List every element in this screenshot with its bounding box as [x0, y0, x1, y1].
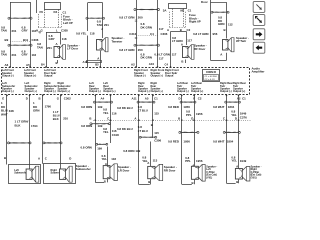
svg-text:BLK: BLK — [15, 123, 22, 127]
svg-text:YEL: YEL — [103, 130, 109, 134]
svg-text:C306: C306 — [161, 32, 168, 36]
svg-text:210: 210 — [63, 117, 68, 121]
svg-text:B: B — [178, 116, 180, 120]
svg-text:0.8 ORN: 0.8 ORN — [81, 124, 92, 128]
svg-text:1956: 1956 — [196, 159, 203, 163]
svg-text:0.8 ORN: 0.8 ORN — [123, 149, 134, 153]
svg-text:DK GRN: DK GRN — [141, 56, 152, 60]
svg-text:Output (-): Output (-) — [2, 89, 14, 93]
svg-text:C1: C1 — [188, 9, 192, 13]
svg-text:Output (-): Output (-) — [138, 89, 150, 93]
svg-text:117: 117 — [187, 38, 192, 42]
svg-text:C312: C312 — [129, 32, 136, 36]
svg-text:118: 118 — [62, 37, 67, 41]
svg-text:GRN: GRN — [33, 109, 39, 113]
svg-text:1804: 1804 — [228, 105, 235, 109]
svg-text:Subwoofer: Subwoofer — [76, 167, 92, 171]
svg-text:Output (-): Output (-) — [134, 74, 146, 78]
svg-text:201: 201 — [12, 53, 17, 57]
svg-text:118: 118 — [90, 32, 95, 36]
svg-text:YEL: YEL — [102, 157, 108, 161]
svg-text:Door: Door — [201, 0, 209, 4]
svg-text:(Y91): (Y91) — [206, 176, 212, 179]
svg-text:Output (-): Output (-) — [220, 89, 232, 93]
svg-text:0.8 WHT: 0.8 WHT — [213, 140, 225, 144]
svg-text:0.8 YEL: 0.8 YEL — [76, 32, 87, 36]
svg-text:A12: A12 — [83, 60, 88, 64]
svg-text:D: D — [191, 116, 193, 120]
svg-text:B: B — [148, 180, 150, 184]
svg-text:D: D — [235, 116, 237, 120]
svg-text:116: 116 — [112, 111, 117, 115]
svg-text:199: 199 — [98, 105, 103, 109]
svg-text:B: B — [192, 181, 194, 185]
svg-text:117: 117 — [159, 57, 164, 61]
svg-text:C2: C2 — [198, 96, 202, 100]
svg-text:(Y91): (Y91) — [251, 176, 257, 179]
svg-text:0.8 LT GRN: 0.8 LT GRN — [119, 16, 134, 20]
svg-text:LR Door: LR Door — [118, 168, 130, 172]
svg-text:D: D — [26, 96, 28, 100]
svg-text:A2: A2 — [131, 62, 135, 66]
svg-text:0.8 ORN: 0.8 ORN — [81, 105, 92, 109]
svg-text:199: 199 — [98, 124, 103, 128]
svg-text:117: 117 — [159, 27, 164, 31]
svg-text:1790: 1790 — [45, 104, 52, 108]
svg-text:C376: C376 — [240, 115, 247, 119]
svg-text:BLK: BLK — [53, 117, 60, 121]
svg-text:C1: C1 — [242, 96, 246, 100]
svg-text:B: B — [104, 179, 106, 183]
svg-text:115: 115 — [154, 131, 159, 135]
svg-text:113: 113 — [153, 158, 158, 162]
svg-text:C305: C305 — [61, 29, 68, 33]
svg-text:WHT: WHT — [1, 112, 8, 116]
svg-text:115: 115 — [154, 111, 159, 115]
svg-text:201: 201 — [104, 23, 109, 27]
svg-text:1956: 1956 — [183, 140, 190, 144]
svg-text:B: B — [4, 156, 6, 160]
svg-text:C4: C4 — [165, 63, 169, 67]
svg-text:0.8 ORN: 0.8 ORN — [81, 146, 92, 150]
svg-text:F6: F6 — [40, 10, 44, 14]
svg-text:B: B — [224, 28, 226, 32]
svg-text:0.8 LT GRN: 0.8 LT GRN — [154, 53, 169, 57]
svg-text:A4: A4 — [101, 96, 105, 100]
svg-text:LT BLU: LT BLU — [138, 129, 148, 133]
svg-text:0.8 RED: 0.8 RED — [168, 105, 179, 109]
svg-text:C1 = 40 WH: C1 = 40 WH — [205, 76, 217, 78]
svg-text:0.8 DK BLU: 0.8 DK BLU — [117, 106, 133, 110]
svg-text:GRN: GRN — [218, 22, 224, 26]
svg-text:Output: Output — [44, 74, 52, 78]
svg-text:Output (+): Output (+) — [58, 89, 70, 93]
svg-text:RR Door: RR Door — [164, 168, 177, 172]
svg-text:Output: Output — [165, 74, 173, 78]
svg-text:Output (+): Output (+) — [191, 89, 203, 93]
svg-text:C1: C1 — [154, 96, 158, 100]
svg-text:348: 348 — [9, 109, 14, 113]
svg-text:D4: D4 — [54, 10, 58, 14]
svg-text:A5: A5 — [145, 96, 149, 100]
svg-text:117: 117 — [172, 53, 177, 57]
svg-text:Output (-): Output (-) — [177, 89, 189, 93]
svg-text:200: 200 — [138, 16, 143, 20]
svg-text:Output (+): Output (+) — [103, 89, 115, 93]
svg-text:C302: C302 — [64, 96, 71, 100]
svg-text:LT BLU: LT BLU — [138, 109, 148, 113]
svg-text:C306: C306 — [154, 138, 161, 142]
svg-text:PPL: PPL — [185, 159, 191, 163]
svg-text:GRY: GRY — [22, 53, 28, 57]
svg-text:Left I/P: Left I/P — [63, 21, 73, 25]
svg-text:Output (+): Output (+) — [151, 74, 163, 78]
svg-text:H: H — [36, 29, 38, 33]
svg-text:Output (+): Output (+) — [151, 89, 163, 93]
svg-text:Right I/P: Right I/P — [189, 20, 201, 24]
svg-text:B5: B5 — [95, 63, 99, 67]
svg-text:D: D — [69, 156, 71, 160]
svg-text:A11: A11 — [132, 96, 138, 100]
svg-text:YEL: YEL — [231, 159, 237, 163]
svg-text:LF Door: LF Door — [67, 47, 79, 51]
svg-text:Output (+): Output (+) — [25, 89, 37, 93]
svg-text:0.8 WHT: 0.8 WHT — [213, 105, 225, 109]
svg-text:199: 199 — [135, 149, 140, 153]
svg-text:GRY: GRY — [49, 37, 55, 41]
svg-text:Amplifier: Amplifier — [252, 70, 266, 74]
svg-text:DK GRN: DK GRN — [141, 25, 152, 29]
svg-text:Output (-): Output (-) — [44, 89, 56, 93]
svg-text:Subwoofer: Subwoofer — [14, 172, 27, 175]
svg-text:TAN: TAN — [1, 53, 7, 57]
svg-text:E: E — [2, 96, 4, 100]
svg-text:201: 201 — [12, 29, 17, 33]
svg-text:118: 118 — [111, 157, 116, 161]
svg-text:B: B — [89, 116, 91, 120]
svg-text:0.8 DK BLU: 0.8 DK BLU — [117, 127, 133, 131]
svg-text:C318: C318 — [112, 133, 119, 137]
svg-text:1794: 1794 — [31, 124, 38, 128]
svg-text:956: 956 — [213, 32, 218, 36]
svg-text:I/P Twtr: I/P Twtr — [236, 39, 247, 43]
svg-text:B: B — [39, 96, 41, 100]
svg-text:1804: 1804 — [227, 140, 234, 144]
svg-text:GRY: GRY — [22, 29, 28, 33]
svg-text:A6: A6 — [5, 63, 9, 67]
svg-text:B9: B9 — [5, 38, 9, 42]
svg-text:L: L — [56, 29, 58, 33]
svg-text:CONN ID: CONN ID — [206, 71, 216, 74]
svg-text:B4: B4 — [41, 63, 45, 67]
svg-text:Output (-): Output (-) — [2, 74, 14, 78]
svg-text:0.8 LT GRN: 0.8 LT GRN — [119, 48, 134, 52]
svg-text:C2: C2 — [187, 28, 191, 32]
svg-text:199: 199 — [97, 147, 102, 151]
svg-text:1956: 1956 — [196, 112, 203, 116]
svg-text:Output (-): Output (-) — [89, 89, 101, 93]
svg-text:Output (+): Output (+) — [233, 89, 245, 93]
svg-text:B: B — [236, 180, 238, 184]
svg-text:RF Door: RF Door — [194, 47, 206, 51]
svg-text:TAN: TAN — [1, 29, 7, 33]
svg-text:201: 201 — [47, 46, 52, 50]
svg-text:A10: A10 — [149, 62, 155, 66]
svg-text:TAN: TAN — [37, 45, 43, 49]
svg-text:0.8 RED: 0.8 RED — [168, 140, 179, 144]
svg-text:112: 112 — [228, 22, 233, 26]
svg-text:1949: 1949 — [240, 159, 247, 163]
svg-text:1956: 1956 — [183, 105, 190, 109]
svg-text:0.8 LT GRN: 0.8 LT GRN — [193, 32, 208, 36]
svg-text:YEL: YEL — [103, 111, 109, 115]
svg-text:Output (+): Output (+) — [24, 74, 36, 78]
svg-text:B: B — [151, 123, 153, 127]
svg-text:C2 = 4 GY: C2 = 4 GY — [205, 79, 216, 81]
svg-text:D: D — [179, 96, 181, 100]
svg-text:Tweeter: Tweeter — [112, 39, 124, 43]
svg-text:116: 116 — [32, 53, 37, 57]
svg-text:B: B — [181, 60, 183, 64]
